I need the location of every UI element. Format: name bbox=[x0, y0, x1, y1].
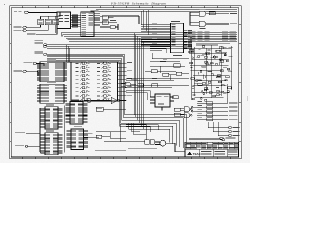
connector CN2 index bbox=[15, 131, 40, 134]
wire to title oval bbox=[189, 137, 236, 139]
svg-text:FD-55GFR Schematic Diagram: FD-55GFR Schematic Diagram bbox=[110, 1, 166, 5]
driver cell D5 bbox=[75, 78, 89, 81]
resistor R8 bbox=[145, 140, 155, 145]
bus corners bbox=[61, 33, 64, 37]
transistor Q1 bbox=[155, 140, 185, 152]
driver cell D3 bbox=[75, 70, 89, 73]
resistor R11 bbox=[174, 108, 180, 116]
wire mid rails bbox=[126, 85, 189, 87]
bus data lines bbox=[61, 28, 237, 41]
title block cells text bbox=[201, 151, 238, 155]
hybrid module HY1 bbox=[57, 12, 71, 28]
driver cell D18 bbox=[97, 90, 111, 93]
gate U5A bbox=[190, 9, 237, 16]
text part numbers left bbox=[95, 149, 126, 152]
border zone ticks bbox=[10, 6, 242, 159]
ic U4 right pins bbox=[184, 30, 193, 49]
resistor network RA2 bbox=[190, 32, 236, 41]
driver cell D10 bbox=[75, 98, 89, 101]
connector CN2 ready bbox=[15, 145, 40, 147]
logo TEAC bbox=[187, 152, 201, 157]
driver cell D7 bbox=[75, 86, 89, 89]
note text line bbox=[196, 43, 230, 46]
wire gate feeds bbox=[190, 12, 196, 25]
svg-text:TEAC: TEAC bbox=[193, 152, 202, 156]
connector CN5 stubs bbox=[208, 122, 240, 137]
wire stepped a bbox=[126, 125, 158, 132]
connector CN1 labels a bbox=[35, 40, 44, 43]
driver cell D2 bbox=[75, 66, 89, 69]
wire stepped b bbox=[96, 127, 126, 140]
wire top bus bbox=[57, 10, 237, 13]
connector CN4 stubs bbox=[191, 84, 238, 121]
driver cell D8 bbox=[75, 90, 89, 93]
wire left vertical bus bbox=[39, 106, 64, 154]
ic U1 right pins bbox=[89, 14, 101, 27]
crystal X1 bbox=[100, 24, 118, 30]
driver cell D17 bbox=[97, 86, 111, 89]
ic U12 bbox=[67, 126, 89, 149]
driver cell D12 bbox=[97, 66, 111, 69]
wire to Q1 bbox=[104, 124, 146, 142]
driver cell D20 bbox=[97, 98, 111, 101]
wire long rails a bbox=[44, 44, 193, 48]
photo sensor PS1 bbox=[84, 99, 110, 103]
wire U7 feeds bbox=[126, 91, 150, 101]
connector CN1 STEP bbox=[24, 62, 45, 66]
driver cell D16 bbox=[97, 82, 111, 85]
driver array box bbox=[71, 62, 118, 101]
filter FL1 bbox=[38, 16, 44, 24]
driver cell D6 bbox=[75, 82, 89, 85]
opamp U8 bbox=[111, 97, 126, 104]
ic U9 bbox=[41, 105, 63, 129]
text part numbers right bbox=[128, 147, 157, 150]
resistor R6 bbox=[152, 84, 158, 87]
driver cell D15 bbox=[97, 78, 111, 81]
capacitor C1 bbox=[100, 16, 139, 25]
gate U6A bbox=[180, 107, 192, 112]
driver cell D19 bbox=[97, 94, 111, 97]
gate U6C bbox=[121, 82, 136, 87]
wire filter out bbox=[27, 25, 57, 35]
scan artifact bbox=[246, 96, 248, 101]
connector CN3 stub +5V bbox=[14, 25, 49, 32]
title block grid bbox=[185, 142, 238, 157]
driver cell D4 bbox=[75, 74, 89, 77]
gate U6B bbox=[180, 113, 192, 118]
driver cell D14 bbox=[97, 74, 111, 77]
ic U11 bbox=[41, 131, 63, 155]
connector CN1 labels b bbox=[35, 51, 44, 53]
filter FL3 bbox=[53, 16, 59, 24]
resistor R12 bbox=[84, 133, 111, 138]
wire rails to U4 bbox=[150, 47, 171, 54]
wire bottom rail bbox=[189, 139, 225, 141]
resistor R5 bbox=[138, 84, 144, 87]
bus vertical trunk bbox=[119, 33, 186, 148]
connector CN3 stub GND bbox=[14, 25, 41, 29]
servo filter parts bbox=[126, 53, 189, 81]
ic U2 logic array bbox=[37, 60, 67, 82]
title block row text bbox=[186, 143, 239, 149]
resistor array RA1 bbox=[71, 15, 81, 28]
wire top drops to U4 bbox=[141, 10, 149, 35]
wire filter top rail bbox=[41, 12, 61, 16]
ic U1 floppy controller bbox=[81, 11, 99, 37]
driver cell D11 bbox=[97, 62, 111, 65]
outer border frame bbox=[10, 6, 242, 159]
wire rail drops bbox=[67, 45, 70, 63]
resistor R10 bbox=[173, 96, 179, 99]
driver cell D9 bbox=[75, 94, 89, 97]
ic U4 left pins bbox=[141, 23, 176, 46]
resistor R7 bbox=[96, 107, 126, 111]
filter FL2 bbox=[45, 16, 51, 24]
connector CN3 stub HD-IN bbox=[14, 11, 57, 14]
ic U7 motor driver bbox=[150, 94, 174, 111]
capacitor C2 bbox=[100, 20, 117, 24]
wire long rail c bbox=[47, 59, 122, 126]
wire long rails b bbox=[44, 53, 125, 117]
wire stepped c bbox=[129, 124, 147, 140]
ic U10 bbox=[66, 100, 88, 125]
driver outputs bbox=[118, 62, 133, 100]
ic U4 servo controller bbox=[171, 21, 184, 52]
analog section wires bbox=[190, 45, 232, 100]
wire mid drop bbox=[110, 132, 126, 139]
driver cell D13 bbox=[97, 70, 111, 73]
resistor R1 bbox=[209, 12, 215, 15]
ic U3 logic array bbox=[37, 82, 67, 103]
gate U5B bbox=[190, 21, 237, 28]
connector CN1 DIR bbox=[14, 70, 39, 76]
analog section components bbox=[189, 46, 233, 103]
inner border frame bbox=[11, 8, 238, 157]
driver cell D1 bbox=[75, 62, 89, 65]
stray scan mark bbox=[4, 4, 5, 5]
